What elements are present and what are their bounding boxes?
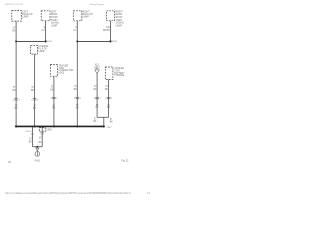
svg-text:BK/PK: BK/PK (103, 30, 110, 32)
svg-text:4: 4 (99, 98, 101, 100)
svg-text:BK: BK (93, 121, 97, 123)
svg-text:GY: GY (42, 30, 46, 32)
svg-text:S403: S403 (112, 41, 118, 43)
svg-text:https://my.alldata.com/repair/: https://my.alldata.com/repair/#/repair/v… (5, 192, 132, 195)
svg-text:4: 4 (111, 98, 113, 100)
svg-text:140: 140 (106, 27, 111, 29)
svg-text:C408: C408 (46, 129, 52, 131)
svg-text:LEFT: LEFT (22, 11, 28, 13)
svg-text:BK: BK (50, 90, 54, 92)
svg-text:REAR: REAR (51, 13, 58, 16)
svg-text:C417: C417 (94, 67, 100, 69)
svg-text:REAR: REAR (116, 13, 123, 16)
svg-text:C407: C407 (106, 127, 112, 129)
svg-text:SIGNAL: SIGNAL (51, 22, 60, 25)
svg-text:4: 4 (80, 98, 82, 100)
svg-text:LAMP: LAMP (22, 16, 29, 19)
svg-text:4: 4 (56, 98, 58, 100)
svg-text:CHARGE: CHARGE (114, 74, 124, 77)
svg-text:BK: BK (96, 107, 100, 109)
svg-text:RIGHT: RIGHT (116, 11, 124, 13)
svg-text:BK: BK (110, 122, 114, 124)
svg-text:4: 4 (18, 99, 20, 101)
svg-text:BK: BK (105, 89, 109, 91)
svg-text:BACK-UP: BACK-UP (83, 13, 94, 16)
svg-text:Wiring Diagram: Wiring Diagram (90, 3, 105, 6)
svg-text:LAMP: LAMP (116, 25, 123, 28)
svg-text:BACK-UP: BACK-UP (22, 13, 33, 16)
svg-text:GY: GY (73, 30, 77, 32)
svg-text:BK: BK (39, 142, 43, 144)
svg-text:BK: BK (94, 89, 98, 91)
svg-text:TURN: TURN (51, 20, 58, 22)
svg-text:BK: BK (52, 108, 56, 110)
svg-text:1/1: 1/1 (147, 193, 151, 195)
svg-text:BK: BK (74, 89, 78, 91)
svg-text:BK: BK (29, 142, 33, 144)
svg-text:BK: BK (31, 90, 35, 92)
svg-text:STOP/: STOP/ (51, 17, 58, 19)
svg-text:(4X2): (4X2) (59, 73, 65, 75)
svg-text:S402: S402 (47, 41, 53, 43)
svg-text:BK: BK (33, 108, 37, 110)
svg-text:Fig. 21: Fig. 21 (122, 161, 130, 163)
svg-text:C409: C409 (25, 131, 32, 133)
svg-text:STOP/: STOP/ (116, 17, 123, 19)
svg-text:RIGHT: RIGHT (83, 11, 91, 13)
svg-text:BK: BK (107, 107, 111, 109)
svg-text:1/2: 1/2 (8, 162, 12, 164)
svg-text:LEFT: LEFT (51, 11, 57, 13)
svg-text:LAMP: LAMP (51, 25, 58, 28)
svg-text:TURN: TURN (116, 20, 123, 22)
svg-text:G401: G401 (35, 160, 41, 162)
svg-text:BK: BK (76, 107, 80, 109)
svg-text:4/3/2019, 1:07 PM: 4/3/2019, 1:07 PM (5, 4, 23, 6)
svg-text:BK: BK (15, 108, 19, 110)
svg-text:4: 4 (37, 99, 39, 101)
svg-text:LAMP: LAMP (38, 50, 45, 53)
svg-text:SIGNAL: SIGNAL (116, 22, 125, 25)
svg-text:LAMP: LAMP (83, 16, 90, 19)
svg-text:BK: BK (13, 90, 17, 92)
svg-text:BK: BK (12, 30, 16, 32)
